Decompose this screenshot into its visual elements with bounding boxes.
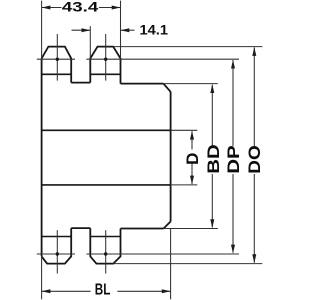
pitch line top T2 + DP extension [86,58,239,60]
centerline bottom T1 [56,230,58,273]
bore top line [42,129,171,131]
tooth T2 bottom outline [90,228,120,264]
svg-text:DP: DP [224,145,243,174]
svg-text:DO: DO [245,145,264,174]
dim line 43.4 [42,7,62,9]
ext line 14.1 left (x=90.3) [89,26,91,58]
svg-text:BL: BL [95,282,111,299]
ext line 43.4 left (x=41.6) [41,1,43,59]
root line bottom T2 [90,236,120,238]
svg-text:43.4: 43.4 [62,0,99,15]
root line top T1 [42,73,72,75]
arrow 14.1 right (points left) [121,28,130,32]
dot T2 bottom [104,252,107,255]
BD bottom extension [165,228,218,230]
svg-text:14.1: 14.1 [140,21,169,37]
arrow BL right [162,289,171,293]
sprocket body outline [42,47,171,264]
BL dim line [42,290,91,292]
arrow D down [190,176,194,185]
DO bottom extension [113,263,262,265]
pitch line bottom T1 [37,253,75,255]
BL right extension [170,229,172,300]
BL left extension [41,256,43,299]
ext line 43.4/14.1 right (x=120.5) [120,1,122,59]
centerline bottom T2 [105,230,107,273]
thin lines: extensions, centerlines [37,1,262,300]
tooth T1 top outline [42,47,72,83]
dot T1 bottom [56,252,59,255]
root line bottom T1 [42,236,72,238]
centerline top T1 [56,34,58,81]
left face [41,58,43,256]
pitch line top T1 [37,58,75,60]
root line top T2 [90,73,120,75]
svg-text:BD: BD [204,144,223,174]
BD dim line [211,85,213,146]
arrow BD down [210,219,214,228]
arrow BD up [210,84,214,93]
arrow 43.4 left [42,6,51,10]
arrow 43.4 right [112,6,121,10]
hub top-right chamfer [164,84,171,92]
arrow 14.1 left (points right) [82,28,91,32]
bore bottom line [42,184,171,186]
bore top extension [171,129,198,131]
dim line 14.1 tails [72,29,91,31]
arrow DO up [252,47,256,56]
centerline top T2 [105,34,107,81]
tooth T1 bottom outline [42,228,72,264]
DP dim line [232,60,234,146]
svg-text:D: D [183,153,202,165]
arrow D up [190,131,194,140]
bore bottom extension [171,184,198,186]
dot T2 top [104,58,107,61]
D dim line [191,131,193,149]
BD top extension [163,83,218,85]
hub bottom-right chamfer [164,222,171,229]
DO dim line [253,47,255,146]
right face [170,92,172,222]
bore lines [42,130,171,185]
arrow BL left [42,289,51,293]
notch bottom (top side) [71,82,90,84]
arrowheads [42,6,257,294]
DO top extension [113,46,262,48]
tooth T2 top outline [90,47,120,84]
dot T1 top [56,58,59,61]
pitch line bottom T2 + DP extension [86,253,239,255]
pitch dots [56,58,108,256]
notch top (bottom side) [71,227,90,229]
arrow DP down [231,245,235,254]
hub top surface [121,83,164,85]
root lines [42,74,121,236]
arrow DO down [252,254,256,263]
hub bottom surface [121,228,164,230]
arrow DP up [231,60,235,69]
